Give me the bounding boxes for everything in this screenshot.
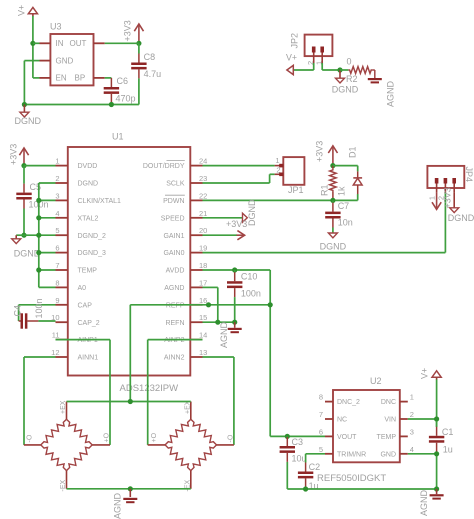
svg-text:JP1: JP1 (288, 185, 304, 195)
svg-text:DNC: DNC (381, 399, 396, 406)
svg-text:SCLK: SCLK (166, 181, 185, 188)
wire pin3 to rail (39, 199, 56, 201)
node +EX/REFP (128, 399, 133, 404)
svg-text:TEMP: TEMP (377, 434, 397, 441)
wire GND to DGND rail (24, 61, 39, 105)
X1 pin -EX (66, 471, 68, 489)
svg-text:0: 0 (347, 57, 352, 67)
overline DRDY (167, 159, 185, 161)
ground DGND (JP2) (336, 70, 345, 83)
svg-text:DGND_2: DGND_2 (78, 233, 107, 240)
U1 pin 17 AGND (164, 278, 207, 292)
U1 pin 16 REFP (166, 296, 208, 310)
svg-text:CAP: CAP (78, 302, 93, 309)
svg-text:2: 2 (55, 174, 59, 183)
node U2 AGND (434, 486, 439, 491)
U1 pin 13 AINN2 (164, 348, 207, 362)
label JP2 (290, 33, 300, 49)
U1 pin 6 DGND_3 (55, 244, 106, 258)
svg-text:5: 5 (55, 226, 59, 235)
wire AVDD riser to VOUT (270, 435, 325, 437)
wire bottom AGND rail (U2) (287, 488, 436, 490)
wire pin4 to rail (39, 217, 56, 219)
svg-text:XTAL2: XTAL2 (78, 215, 99, 222)
connector JP2 body (305, 35, 333, 57)
node DGND rail (22, 102, 27, 107)
U1 pin 9 CAP (55, 296, 92, 310)
svg-text:REFP: REFP (166, 302, 185, 309)
label U2 (370, 376, 382, 386)
label AGND (U2) (419, 489, 429, 516)
label DGND (C7) (320, 242, 347, 252)
ground DGND (C5) (12, 235, 21, 243)
node JP2/R2 (337, 67, 342, 72)
label D1 (348, 146, 358, 158)
svg-text:-O: -O (27, 434, 34, 442)
svg-text:DGND: DGND (15, 116, 42, 126)
U1 pin 12 AINN1 (51, 348, 98, 362)
svg-text:C7: C7 (338, 201, 350, 211)
svg-text:2: 2 (276, 166, 280, 175)
value 1k (337, 186, 347, 196)
JP4 pin 1 (436, 178, 438, 192)
label V+ (17, 5, 27, 16)
X2 pin -EX (190, 471, 192, 489)
value 1u (C1) (443, 444, 453, 454)
svg-text:TRIM/NR: TRIM/NR (337, 451, 366, 458)
svg-text:-O: -O (228, 434, 235, 442)
svg-text:OUT: OUT (70, 39, 87, 48)
label -O (X2) (228, 434, 235, 442)
svg-text:AGND: AGND (219, 321, 229, 348)
wire JP2 pin2 to V+ (293, 63, 314, 70)
label +3V3 (U1) (9, 144, 19, 165)
IC U2 body (333, 390, 400, 462)
wire pin7 to rail (39, 269, 56, 271)
capacitor C10 (227, 270, 242, 322)
wire +EX rail (67, 401, 191, 403)
svg-text:+3V3: +3V3 (226, 219, 247, 229)
svg-text:AVDD: AVDD (166, 268, 185, 275)
wire -EX rail (67, 488, 191, 490)
svg-text:V+: V+ (286, 52, 297, 62)
wire pin2 to rail (39, 182, 56, 184)
wire REFN (203, 321, 235, 323)
svg-text:3: 3 (410, 427, 414, 436)
svg-text:C10: C10 (241, 272, 258, 282)
connector JP1 body (283, 157, 304, 185)
value 0 (R2) (347, 57, 352, 67)
JP1 pin 1 (275, 156, 284, 165)
svg-text:+O: +O (151, 432, 158, 442)
wire GAIN0 to JP4 (203, 192, 446, 252)
svg-text:DVDD: DVDD (78, 163, 98, 170)
svg-text:VIN: VIN (384, 417, 396, 424)
svg-text:22: 22 (199, 191, 207, 200)
svg-text:20: 20 (199, 226, 207, 235)
label AGND (R2) (386, 80, 396, 107)
svg-text:U3: U3 (50, 22, 62, 32)
capacitor C5 (16, 166, 31, 236)
ground AGND (R2) (368, 78, 382, 83)
node VIN (434, 416, 439, 421)
label C6 (117, 76, 129, 86)
node rail row 5 (36, 233, 41, 238)
svg-text:GAIN0: GAIN0 (163, 250, 184, 257)
label +3V3 (U3 out) (123, 20, 133, 41)
value 100n (C5) (29, 200, 49, 210)
diode D1 (333, 166, 362, 201)
svg-text:5: 5 (319, 445, 323, 454)
U1 pin 19 GAIN0 (163, 244, 207, 258)
svg-text:AGND: AGND (386, 80, 396, 107)
svg-text:1k: 1k (337, 186, 347, 196)
svg-text:6: 6 (55, 244, 59, 253)
U1 pin 4 XTAL2 (55, 209, 98, 223)
power +3V3 (U3 out) (134, 24, 143, 43)
JP4 pin 3 (453, 178, 455, 192)
X2 pin +O (148, 444, 165, 446)
svg-text:U2: U2 (370, 376, 382, 386)
ground AGND (bridges) (123, 489, 137, 503)
node REFN/C10 (232, 320, 237, 325)
U1 pin 7 TEMP (55, 261, 97, 275)
capacitor C3 (280, 436, 295, 489)
node R1 top (330, 163, 335, 168)
label DGND (JP4) (448, 213, 474, 223)
wire PDWN to R1 node (203, 199, 333, 201)
label DGND (JP2) (332, 85, 359, 95)
label AGND (REFN) (219, 321, 229, 348)
svg-text:VOUT: VOUT (337, 434, 357, 441)
U1 pin 3 CLKIN/XTAL1 (55, 191, 121, 205)
power +3V3 (GAIN1) (237, 231, 245, 240)
wire AGND pin17 (203, 287, 218, 322)
label V+ (JP2) (286, 52, 297, 62)
IC U1 body (68, 147, 191, 376)
power +3V3 (U1) (19, 148, 28, 166)
svg-text:NC: NC (337, 417, 347, 424)
svg-text:DGND: DGND (247, 199, 257, 226)
value 1u (C2) (309, 481, 319, 491)
svg-text:13: 13 (199, 348, 207, 357)
ground DGND (U3) (20, 105, 29, 118)
svg-text:11: 11 (52, 331, 60, 340)
svg-text:DGND: DGND (320, 242, 347, 252)
label REF5050IDGKT (317, 473, 386, 484)
wire VIN (408, 418, 437, 420)
svg-text:7: 7 (319, 410, 323, 419)
svg-text:470p: 470p (116, 94, 136, 104)
svg-text:6: 6 (319, 427, 323, 436)
wire AINN2 (203, 357, 234, 445)
power V+ (JP2) (287, 65, 293, 74)
svg-text:DGND_3: DGND_3 (78, 250, 107, 257)
node GND pin4 (434, 451, 439, 456)
U2 pin 2 VIN (384, 410, 414, 424)
capacitor C1 (429, 421, 444, 452)
svg-text:+3V3: +3V3 (9, 144, 19, 165)
node REFP/AVDD riser (268, 302, 273, 307)
svg-text:1: 1 (55, 157, 59, 166)
wire pin8 to rail (39, 286, 56, 288)
X2 pin -O (217, 444, 234, 446)
wire AINP2 (148, 340, 203, 445)
U1 pin 1 DVDD (55, 157, 97, 171)
label ADS1232IPW (120, 383, 179, 394)
svg-text:+O: +O (104, 432, 111, 442)
U1 pin 20 GAIN1 (163, 226, 207, 240)
U1 pin 8 A0 (55, 278, 86, 292)
ground AGND (REFN) (228, 322, 242, 333)
U3 pin OUT (70, 39, 105, 48)
JP4 pin 2 (444, 178, 446, 192)
wire SPEED to DGND (203, 217, 243, 219)
label C2 (309, 462, 321, 472)
node -EX/AGND (128, 486, 133, 491)
wire V+ to VIN/C1 (436, 380, 438, 428)
value 100n (C10) (241, 289, 261, 299)
node C2 bottom (303, 486, 308, 491)
svg-text:GND: GND (380, 451, 396, 458)
svg-text:SPEED: SPEED (161, 215, 185, 222)
label C10 (241, 272, 258, 282)
svg-text:+3V3: +3V3 (123, 20, 133, 41)
node rail row 4 (36, 215, 41, 220)
svg-text:10n: 10n (338, 218, 353, 228)
svg-text:AINP2: AINP2 (164, 337, 184, 344)
svg-text:21: 21 (199, 209, 207, 218)
node OUT junction (136, 41, 141, 46)
svg-text:4: 4 (410, 445, 414, 454)
power V+ (U2) (432, 371, 441, 380)
label DGND (U3) (15, 116, 42, 126)
node C5 bottom (21, 233, 26, 238)
JP1 pin 2 (275, 166, 284, 175)
svg-text:DGND: DGND (448, 213, 474, 223)
svg-text:8: 8 (55, 278, 59, 287)
label R1 (320, 184, 330, 196)
X2 pin +EX (190, 402, 192, 420)
svg-text:C1: C1 (442, 427, 454, 437)
svg-text:IN: IN (56, 39, 64, 48)
wire GND pin4 (408, 453, 437, 455)
U3 pin IN (40, 39, 64, 48)
label AGND (bridges) (113, 492, 123, 519)
label DGND (SPEED) (247, 199, 257, 226)
resistor R2 (340, 67, 375, 78)
label C4 (12, 305, 22, 317)
svg-text:-EX: -EX (60, 480, 67, 492)
wire junction to IN (33, 42, 40, 44)
resistor R1 (330, 166, 336, 201)
node rail row 3 (36, 198, 41, 203)
svg-text:1: 1 (428, 196, 437, 200)
svg-text:C8: C8 (144, 52, 156, 62)
wire pin6 to rail (39, 252, 56, 254)
U1 pin 14 AINP2 (164, 331, 207, 345)
svg-text:PDWN: PDWN (163, 198, 184, 205)
svg-text:1u: 1u (443, 444, 453, 454)
label C1 (442, 427, 454, 437)
svg-text:18: 18 (199, 261, 207, 270)
U1 pin 10 CAP_2 (51, 313, 100, 327)
svg-text:C4: C4 (12, 305, 22, 317)
svg-text:GAIN1: GAIN1 (163, 233, 184, 240)
svg-text:JP4: JP4 (464, 167, 474, 183)
svg-text:4.7u: 4.7u (144, 69, 162, 79)
svg-text:R1: R1 (320, 184, 330, 196)
U2 pin 1 DNC (381, 393, 414, 407)
label JP4 pin2 (436, 196, 445, 200)
X1 pin -O (24, 444, 41, 446)
capacitor C4 (19, 305, 56, 329)
node C3 top (285, 434, 290, 439)
label +O (X1) (104, 432, 111, 442)
wire DOUT to JP1-1 (203, 165, 275, 167)
label C5 (30, 182, 42, 192)
svg-text:1: 1 (275, 156, 279, 165)
svg-text:10u: 10u (292, 454, 307, 464)
svg-text:AGND: AGND (164, 285, 184, 292)
label V+ (U2) (420, 368, 430, 379)
svg-text:DGND: DGND (78, 181, 99, 188)
label R2 (346, 74, 358, 84)
value 10u (292, 454, 307, 464)
value 10n (338, 218, 353, 228)
svg-text:AGND: AGND (419, 489, 429, 516)
svg-text:14: 14 (199, 331, 207, 340)
wire JP2 pin1 to node (322, 63, 340, 70)
svg-text:C3: C3 (292, 437, 304, 447)
value 470p (116, 94, 136, 104)
svg-text:ADS1232IPW: ADS1232IPW (120, 383, 179, 394)
label C7 (338, 201, 350, 211)
label DGND (C5) (14, 249, 41, 259)
label JP4 pin1 (428, 196, 437, 200)
svg-text:7: 7 (55, 261, 59, 270)
svg-text:JP2: JP2 (290, 33, 300, 49)
svg-text:-EX: -EX (185, 480, 192, 492)
power +3V3 (JP4) (432, 192, 441, 209)
wire pin5 to rail (39, 234, 56, 236)
U1 pin 21 SPEED (161, 209, 208, 223)
svg-text:C2: C2 (309, 462, 321, 472)
svg-text:U1: U1 (112, 132, 124, 142)
bridge sensor X1 (left load cell) (41, 419, 92, 470)
U2 pin 6 VOUT (319, 427, 357, 441)
label +EX (X2) (185, 400, 192, 414)
svg-text:19: 19 (199, 244, 207, 253)
wire SCLK to JP1-2 (203, 174, 275, 183)
svg-text:1: 1 (410, 393, 414, 402)
connector JP4 body (427, 166, 464, 188)
U1 pin 5 DGND_2 (55, 226, 106, 240)
svg-text:AINN2: AINN2 (164, 355, 185, 362)
svg-text:100n: 100n (34, 298, 44, 318)
svg-text:16: 16 (199, 296, 207, 305)
svg-text:3: 3 (55, 191, 59, 200)
U1 pin 18 AVDD (166, 261, 208, 275)
U3 pin BP (75, 74, 105, 83)
label JP1 (288, 185, 304, 195)
svg-text:CLKIN/XTAL1: CLKIN/XTAL1 (78, 198, 122, 205)
svg-text:2: 2 (410, 410, 414, 419)
svg-text:D1: D1 (348, 146, 358, 158)
U3 pin EN (40, 74, 67, 83)
svg-text:GND: GND (56, 56, 74, 65)
U1 pin 15 REFN (165, 313, 207, 327)
ground AGND (U2) (430, 489, 444, 500)
op-amp U3 body (50, 34, 93, 85)
overline PDWN (165, 194, 185, 196)
U1 pin 11 AINP1 (52, 331, 98, 345)
node rail row 7 (36, 267, 41, 272)
U1 pin 22 PDWN (163, 191, 207, 205)
label +O (X2) (151, 432, 158, 442)
wire AVDD (203, 269, 271, 271)
wire DGND rail (pins 2-8) (38, 183, 40, 287)
U1 pin 23 SCLK (166, 174, 207, 188)
svg-text:AINP1: AINP1 (78, 337, 98, 344)
node REFN/pin17 (215, 320, 220, 325)
svg-text:12: 12 (51, 348, 59, 357)
capacitor C8 (131, 43, 146, 104)
svg-text:8: 8 (319, 393, 323, 402)
svg-text:C6: C6 (117, 76, 129, 86)
wire AINP1 (56, 340, 111, 445)
svg-text:REF5050IDGKT: REF5050IDGKT (317, 473, 386, 484)
node REFP stub (206, 302, 211, 307)
svg-text:TEMP: TEMP (78, 268, 98, 275)
svg-text:+3V3: +3V3 (443, 187, 453, 208)
X1 pin +EX (66, 402, 68, 420)
label JP4 (464, 167, 474, 183)
svg-text:REFN: REFN (165, 320, 184, 327)
wire GAIN1 to +3V3 (203, 234, 238, 236)
svg-text:AINN1: AINN1 (78, 355, 99, 362)
svg-text:+EX: +EX (60, 400, 67, 414)
label +3V3 (GAIN1) (226, 219, 247, 229)
U2 pin 8 DNC_2 (319, 393, 360, 407)
value 100n (C4) (34, 298, 44, 318)
label U3 (50, 22, 62, 32)
U2 pin 4 GND (380, 445, 414, 459)
wire V+ to IN/EN (33, 16, 40, 78)
ground DGND (SPEED) (243, 213, 248, 222)
wire bottom DGND rail (24, 104, 138, 106)
U2 pin 3 TEMP (377, 427, 414, 441)
ground DGND (C7) (328, 233, 337, 238)
label +EX (X1) (60, 400, 67, 414)
label -EX (X1) (60, 480, 67, 492)
label -EX (X2) (185, 480, 192, 492)
svg-text:DNC_2: DNC_2 (337, 399, 360, 406)
svg-text:CAP_2: CAP_2 (78, 320, 100, 327)
wire C1 bottom to rail (436, 454, 438, 489)
svg-text:AGND: AGND (113, 492, 123, 519)
svg-text:+3V3: +3V3 (315, 141, 325, 162)
svg-text:DOUT/DRDY: DOUT/DRDY (143, 163, 185, 170)
value 4.7u (144, 69, 162, 79)
svg-text:EN: EN (56, 74, 67, 83)
wire OUT to C8 (105, 42, 139, 44)
power symbol V+ (top left) (28, 7, 37, 16)
JP2 pin 1 (314, 47, 323, 66)
node C10 top (232, 267, 237, 272)
capacitor C2 (298, 454, 325, 489)
U2 pin 7 NC (319, 410, 347, 424)
